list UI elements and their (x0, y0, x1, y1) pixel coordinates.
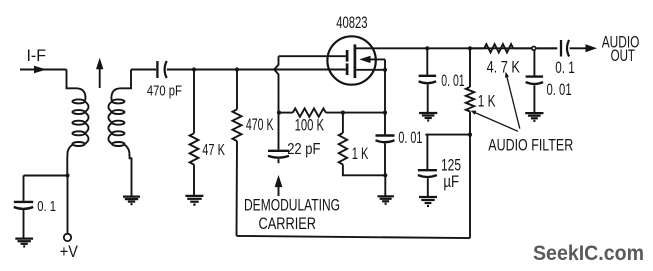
wire 125uF row (425, 134, 470, 136)
wire 1K to 125uF node (469, 112, 471, 135)
svg-text:100 K: 100 K (295, 116, 325, 134)
capacitor 0.1 (input bypass) (14, 201, 33, 203)
svg-text:470 pF: 470 pF (147, 82, 182, 99)
svg-text:DEMODULATING: DEMODULATING (244, 197, 340, 215)
transistor Q1 40823 dual-gate MOSFET circle (327, 36, 375, 84)
capacitor 0.01 source bypass (376, 134, 395, 136)
wire Q1 source lead (356, 69, 385, 71)
resistor 1 K (source) (339, 133, 347, 165)
svg-text:0. 1: 0. 1 (555, 59, 575, 77)
wire T1 to coupling cap 470pF (131, 69, 156, 71)
wire 100K to 1K node (326, 112, 343, 114)
svg-text:I-F: I-F (27, 47, 47, 65)
capacitor 0.1 output coupling (560, 40, 562, 57)
ground below drain 0.01 (419, 112, 437, 114)
wire branch gate2 / AGC node (jogged junction) (274, 56, 278, 112)
svg-text:470 K: 470 K (246, 116, 274, 134)
node junction 1K / 125uF / feedback (468, 133, 472, 137)
svg-text:1 K: 1 K (352, 145, 369, 163)
Q1 substrate lead with arrow (359, 56, 370, 63)
svg-text:OUT: OUT (611, 47, 635, 65)
capacitor 125 uF electrolytic (418, 169, 437, 171)
arrowhead audio out (586, 44, 598, 52)
wire 470K down to feedback rail (236, 141, 239, 236)
inductor T1 secondary winding (112, 99, 124, 103)
node junction 1K / 0.01 / ground (383, 173, 387, 177)
node junction rail / 1K filter (468, 46, 472, 50)
wire gate rail 470pF to gate1 (167, 69, 346, 71)
Q1 gate-2 bar (346, 50, 349, 62)
wire rail to 470K (236, 70, 238, 110)
wire to +V terminal (67, 176, 69, 234)
svg-text:40823: 40823 (336, 13, 367, 32)
wire to 0.01 cap (426, 48, 428, 74)
wire 1K bottom to ground node (343, 165, 385, 176)
wire source down to bypass node (384, 70, 386, 113)
svg-text:SeekIC.com: SeekIC.com (533, 242, 644, 265)
wire node to 22pF (278, 113, 280, 150)
wire to bypass cap 0.1 (24, 175, 68, 177)
wire T1 secondary bottom lead (124, 145, 131, 196)
wire feedback riser to 1K/125uF node (469, 135, 471, 239)
node open-circle junction rail / 0.01 (532, 46, 536, 50)
resistor 470 K (233, 109, 242, 141)
ground T1 secondary (123, 196, 140, 198)
node junction rail / C 0.01 (425, 46, 429, 50)
wire cap 0.1 to ground (23, 210, 25, 238)
node junction source/substrate (383, 68, 387, 72)
wire gate2 lead (279, 55, 346, 57)
wire I-F to transformer T1 primary top (67, 70, 77, 89)
capacitor 470 pF coupling (156, 61, 158, 78)
wire T1 primary bottom lead (67, 145, 72, 176)
leader arrowhead at 1K (471, 111, 477, 115)
leader line to 4.7K (506, 75, 520, 129)
node junction rail / 47K (192, 67, 196, 71)
resistor 4.7 K audio filter (484, 44, 513, 52)
wire Q1 drain to output rail (355, 47, 557, 49)
wire node to ground (384, 175, 386, 196)
svg-text:+V: +V (60, 243, 78, 261)
node junction rail / 470K (235, 67, 239, 71)
wire to source bypass 0.01 (384, 113, 386, 135)
resistor 100 K (293, 108, 326, 116)
ground below 47K (185, 195, 203, 197)
arrow demodulating carrier injection (275, 175, 283, 187)
wire to 1K (469, 48, 471, 87)
node junction source / 0.01 (383, 111, 387, 115)
svg-text:0. 01: 0. 01 (547, 81, 572, 99)
svg-text:AUDIO FILTER: AUDIO FILTER (488, 137, 573, 155)
wire to 125uF (426, 135, 428, 169)
resistor 47 K (190, 133, 199, 164)
svg-text:0. 01: 0. 01 (398, 129, 422, 147)
terminal +V circle (64, 234, 71, 241)
svg-text:µF: µF (443, 173, 459, 191)
wire 0.01 to ground (427, 84, 429, 112)
svg-text:125: 125 (441, 157, 461, 175)
wire to 100K (279, 112, 293, 114)
ground below right 0.01 (525, 112, 543, 114)
inductor T1 primary winding (72, 99, 84, 103)
wire rail to 47K (193, 70, 195, 134)
wire 125uF to ground (427, 178, 429, 196)
wire 4.7K to 0.1 cap (513, 47, 557, 49)
ground below 125uF (419, 196, 437, 198)
wire feedback bottom rail (237, 236, 471, 238)
wire to 4.7K (470, 47, 484, 49)
wire right 0.01 to ground (533, 85, 535, 113)
node junction 100K / 1K (341, 111, 345, 115)
capacitor 0.01 output filter (526, 75, 544, 77)
wire down to cap 0.1 (23, 176, 25, 201)
node junction T1-primary / C-0.1 / +V (65, 173, 69, 177)
svg-text:1 K: 1 K (478, 93, 496, 111)
arrow tuning indicator between windings (99, 68, 101, 89)
wire node to right 0.01 (533, 51, 535, 76)
capacitor 0.01 drain bypass (419, 75, 437, 77)
wire T1 secondary top lead (111, 88, 120, 101)
svg-text:CARRIER: CARRIER (259, 215, 317, 233)
wire 22pF bottom stub (278, 159, 280, 163)
node junction gate2 branch / 100K / 22pF (277, 111, 281, 115)
svg-text:0. 1: 0. 1 (37, 198, 56, 215)
wire 0.01 to ground node (384, 143, 386, 175)
svg-text:4. 7 K: 4. 7 K (487, 59, 520, 77)
wire 0.1 to audio out arrow (570, 47, 586, 49)
svg-text:0. 01: 0. 01 (441, 72, 464, 90)
ground below 0.1 cap (15, 238, 33, 240)
leader line to 1K (475, 112, 518, 131)
ground below source node (377, 195, 394, 197)
arrowhead I-F signal direction (34, 66, 47, 73)
wire I-F input lead (20, 69, 67, 71)
wire 1K top lead (342, 113, 344, 133)
svg-text:47 K: 47 K (202, 142, 225, 159)
resistor 1 K audio filter (466, 87, 474, 112)
Q1 channel bar (354, 44, 357, 78)
wire node to source bypass node (343, 112, 385, 114)
wire 47K to ground (193, 165, 195, 196)
capacitor 22 pF (268, 150, 289, 152)
svg-text:22 pF: 22 pF (287, 141, 320, 158)
Q1 gate-1 bar (346, 63, 349, 75)
leader arrowhead at 4.7K (505, 72, 509, 78)
